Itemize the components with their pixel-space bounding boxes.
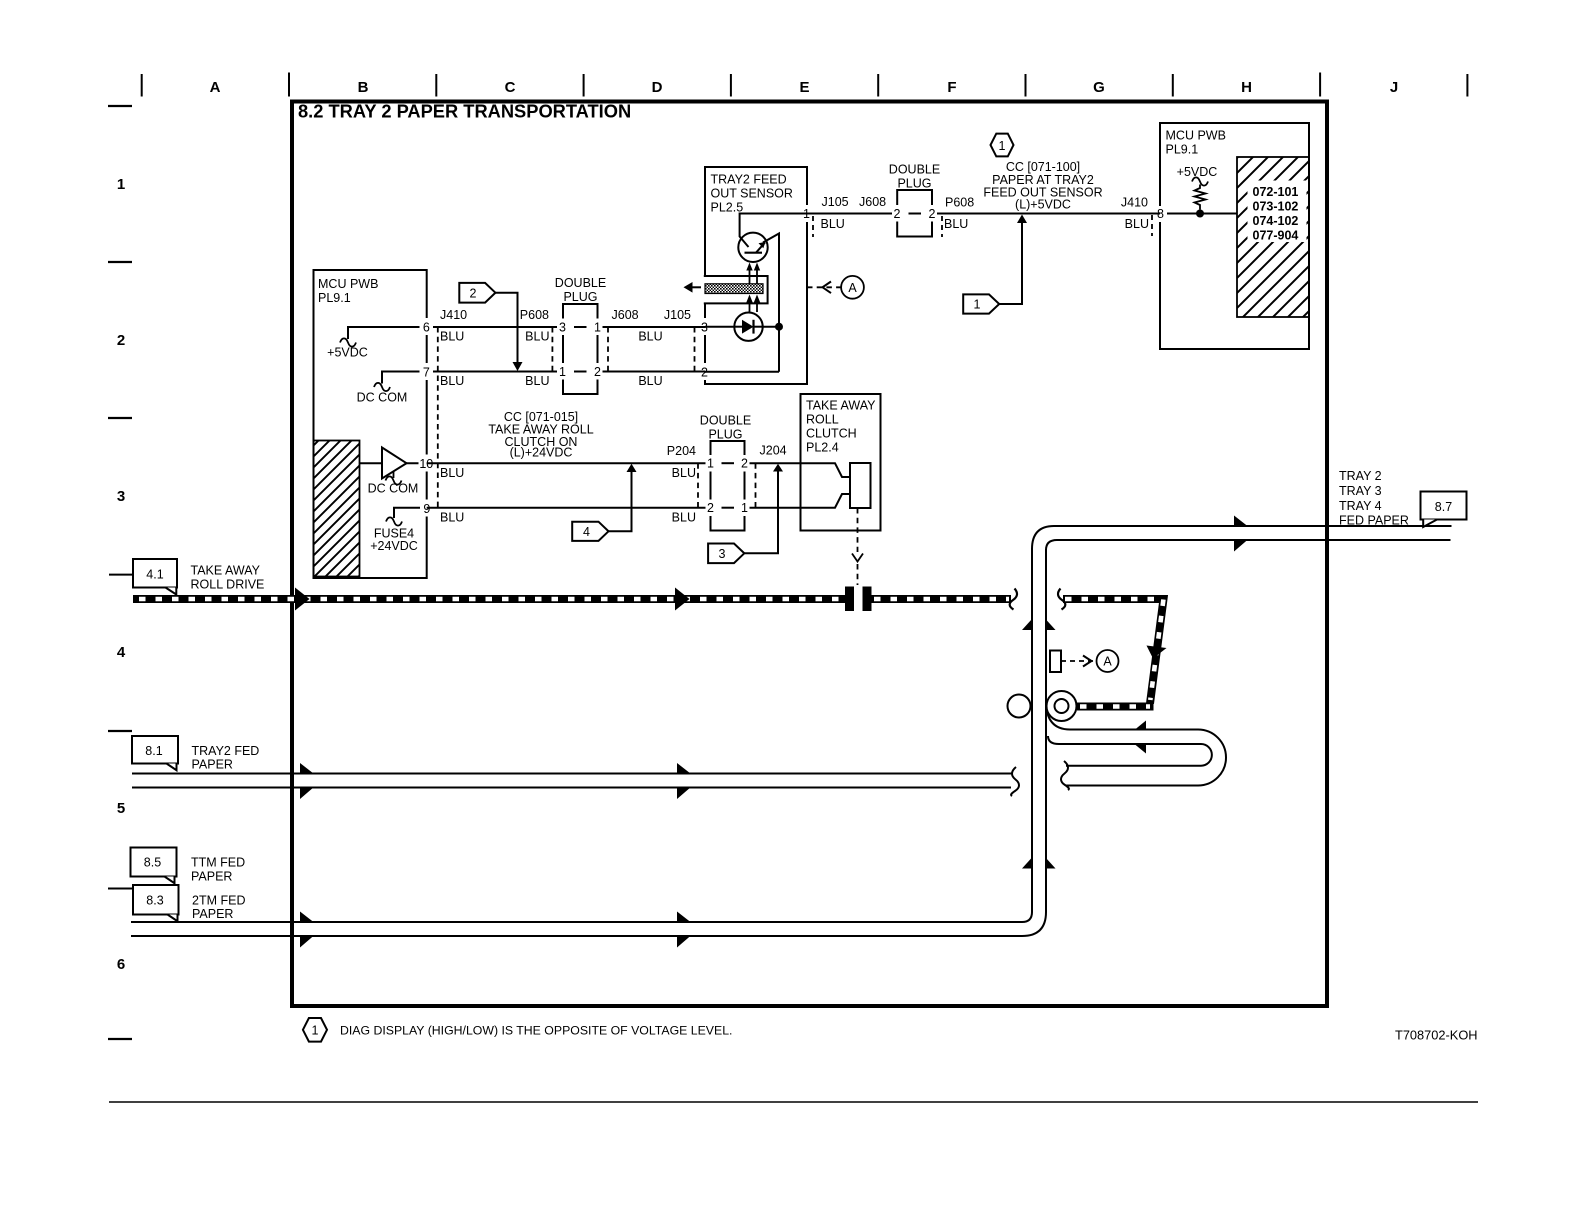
svg-text:+5VDC: +5VDC	[327, 346, 368, 360]
svg-text:J105: J105	[664, 308, 691, 322]
svg-text:FED PAPER: FED PAPER	[1339, 514, 1409, 528]
flag 1 callout	[963, 215, 1027, 314]
connector boundary J105 (dashed)	[812, 216, 814, 237]
drive direction arrowhead	[295, 588, 310, 611]
svg-text:TAKE AWAY: TAKE AWAY	[806, 399, 876, 413]
TRAY2 fed paper path top line	[132, 773, 1012, 775]
wire DP3 to clutch bottom	[749, 507, 801, 509]
coil core	[850, 463, 871, 508]
junction node pin8/resistor	[1196, 210, 1204, 218]
drive belt segment D (checkered)	[1077, 703, 1154, 711]
clutch body box	[801, 394, 881, 531]
svg-text:BLU: BLU	[672, 511, 696, 525]
harness connector boundary J410 (dashed)	[437, 327, 439, 509]
svg-text:DC COM: DC COM	[368, 482, 419, 496]
svg-text:BLU: BLU	[440, 511, 464, 525]
note hexagon 1	[303, 1018, 327, 1042]
svg-text:PL2.4: PL2.4	[806, 441, 839, 455]
svg-text:BLU: BLU	[440, 466, 464, 480]
svg-text:3: 3	[719, 547, 726, 561]
grid column tick marks	[142, 73, 1468, 97]
belt break squiggle right	[1058, 589, 1065, 610]
svg-text:2: 2	[929, 207, 936, 221]
signal name CC [071-015]	[488, 410, 593, 460]
drawing frame border	[292, 102, 1327, 1007]
svg-text:8.3: 8.3	[146, 894, 163, 908]
paper direction up-arrows (duct, lower)	[1022, 858, 1032, 869]
svg-text:2: 2	[470, 286, 477, 300]
flag 4 callout	[572, 464, 636, 541]
svg-text:J: J	[1390, 79, 1398, 96]
emitter wire down to common	[763, 234, 779, 372]
harness connector boundary J105 (dashed)	[694, 327, 696, 374]
svg-text:BLU: BLU	[525, 330, 549, 344]
svg-text:1: 1	[999, 139, 1006, 153]
svg-text:P608: P608	[520, 308, 549, 322]
paper direction half-arrows mid	[677, 912, 690, 922]
TRAY2 fed paper path bottom line	[132, 787, 1011, 789]
test point A (drive)	[1050, 650, 1119, 672]
wire J410-7 to double plug (BLU)	[427, 371, 557, 373]
svg-text:PLUG: PLUG	[708, 428, 742, 442]
svg-text:J105: J105	[822, 195, 849, 209]
double plug DP1 (C-D column)	[555, 276, 606, 394]
svg-text:BLU: BLU	[672, 466, 696, 480]
svg-text:J410: J410	[440, 308, 467, 322]
svg-text:G: G	[1093, 79, 1105, 96]
svg-text:8: 8	[1157, 207, 1164, 221]
internal wire pin 2 common	[705, 371, 779, 373]
vertical transport duct right wall	[1045, 549, 1047, 913]
svg-text:BLU: BLU	[821, 217, 845, 231]
svg-text:1: 1	[559, 365, 566, 379]
svg-text:BLU: BLU	[440, 374, 464, 388]
grid row numbers	[117, 176, 126, 973]
svg-text:3: 3	[117, 488, 125, 505]
svg-text:DIAG DISPLAY (HIGH/LOW) IS THE: DIAG DISPLAY (HIGH/LOW) IS THE OPPOSITE …	[340, 1024, 732, 1038]
paper direction up-arrows (duct, upper)	[1022, 620, 1032, 631]
svg-text:B: B	[358, 79, 369, 96]
belt direction arrowhead (down)	[1147, 646, 1167, 659]
wire harness J608 to J105 top (BLU)	[598, 326, 706, 328]
drive belt segment A (checkered)	[133, 595, 845, 603]
svg-text:2: 2	[117, 332, 125, 349]
actuator flag (hatched)	[705, 284, 763, 294]
svg-text:3: 3	[559, 321, 566, 335]
signal name CC [071-100]	[983, 160, 1102, 212]
DC COM return at pin 7	[357, 372, 426, 405]
wire DP3 to clutch top	[749, 462, 801, 464]
svg-text:8.7: 8.7	[1435, 500, 1452, 514]
return hairpin outer top line	[1046, 701, 1226, 786]
paper direction half-arrows at border	[300, 763, 313, 773]
svg-text:4: 4	[117, 644, 126, 661]
paper direction half-arrows (exit)	[1234, 516, 1247, 526]
connector boundary J204 (dashed)	[755, 463, 757, 509]
svg-text:2: 2	[707, 501, 714, 515]
sensor slot bracket	[704, 276, 768, 303]
pinch roller (idler)	[1008, 695, 1031, 718]
vertical transport duct left wall	[1031, 548, 1033, 913]
svg-text:1: 1	[974, 298, 981, 312]
pin 9	[420, 500, 434, 517]
flag 2 callout	[459, 283, 522, 371]
svg-text:9: 9	[423, 502, 430, 516]
paper direction half-arrows mid	[677, 763, 690, 773]
svg-text:T708702-KOH: T708702-KOH	[1395, 1028, 1478, 1043]
svg-text:A: A	[848, 281, 857, 295]
svg-text:J608: J608	[612, 308, 639, 322]
junction node (LED cathode / emitter common)	[775, 323, 783, 331]
wire J410-6 to double plug (BLU)	[427, 326, 557, 328]
wire sensor pin1 to double plug DP2 (BLU)	[807, 213, 897, 215]
drive belt segment B (checkered)	[872, 595, 1012, 603]
pin 6	[420, 318, 434, 335]
FUSE4 +24VDC source at pin 9	[370, 508, 426, 553]
svg-text:TRAY2 FEED: TRAY2 FEED	[711, 173, 787, 187]
svg-text:6: 6	[423, 321, 430, 335]
svg-text:7: 7	[423, 366, 430, 380]
svg-text:A: A	[210, 79, 221, 96]
svg-text:BLU: BLU	[1125, 217, 1149, 231]
svg-text:5: 5	[117, 800, 125, 817]
drive belt segment C with diagonal (checkered)	[1063, 599, 1164, 704]
svg-text:1: 1	[741, 501, 748, 515]
clutch coupling bars	[845, 587, 854, 612]
svg-text:CLUTCH: CLUTCH	[806, 427, 857, 441]
svg-text:8.1: 8.1	[145, 744, 162, 758]
svg-text:F: F	[947, 79, 956, 96]
note reference hexagon 1	[991, 134, 1014, 157]
svg-text:BLU: BLU	[944, 217, 968, 231]
callout 8.3	[108, 885, 245, 921]
callout 4.1	[109, 574, 133, 576]
harness connector boundary J608 (dashed)	[607, 327, 609, 374]
svg-text:PLUG: PLUG	[563, 290, 597, 304]
wire MCU pin9 to double plug DP3 (BLU)	[427, 507, 706, 509]
wire harness J608 to J105 bottom (BLU)	[598, 371, 706, 373]
sensor body box	[705, 167, 807, 384]
svg-text:TRAY 3: TRAY 3	[1339, 484, 1382, 498]
svg-text:073-102: 073-102	[1253, 200, 1299, 214]
return hairpin inner top line	[1048, 736, 1212, 766]
svg-text:+24VDC: +24VDC	[370, 539, 418, 553]
svg-text:074-102: 074-102	[1253, 214, 1299, 228]
wire pin 8 to logic block	[1167, 213, 1237, 215]
double plug DP3 (clutch)	[700, 414, 751, 531]
+5VDC source at pin 6	[327, 327, 426, 360]
belt break squiggle left	[1010, 589, 1017, 610]
wire DP2 to MCU pin 8 (BLU)	[932, 213, 1160, 215]
svg-text:1: 1	[117, 176, 125, 193]
svg-text:TTM FED: TTM FED	[191, 856, 245, 870]
svg-text:8.5: 8.5	[144, 856, 161, 870]
connector boundary P204 (dashed)	[697, 463, 699, 509]
svg-text:2: 2	[894, 207, 901, 221]
svg-text:2: 2	[741, 457, 748, 471]
svg-text:PAPER: PAPER	[192, 907, 233, 921]
pin 7	[420, 363, 434, 380]
svg-text:PLUG: PLUG	[897, 177, 931, 191]
driver buffer at pin 10	[360, 448, 427, 496]
destination labels TRAY 2/3/4 FED PAPER	[1339, 469, 1409, 528]
svg-text:1: 1	[312, 1024, 319, 1038]
coil leads	[801, 463, 851, 477]
internal collector wire to pin 1	[740, 214, 807, 238]
connector boundary P608 (dashed)	[941, 216, 943, 237]
callout 8.1	[132, 736, 259, 772]
svg-text:C: C	[505, 79, 516, 96]
svg-text:PL9.1: PL9.1	[1166, 143, 1199, 157]
svg-text:BLU: BLU	[525, 374, 549, 388]
svg-text:1: 1	[707, 457, 714, 471]
test point A (sensor)	[807, 276, 864, 299]
mechanical actuation (dashed)	[857, 508, 859, 552]
paper direction half-arrows (hairpin, leftward)	[1135, 721, 1146, 730]
svg-text:8.2 TRAY 2 PAPER TRANSPORTATIO: 8.2 TRAY 2 PAPER TRANSPORTATION	[298, 101, 631, 122]
svg-text:CC [071-100]: CC [071-100]	[1006, 160, 1080, 174]
svg-text:BLU: BLU	[440, 330, 464, 344]
svg-text:J608: J608	[859, 195, 886, 209]
svg-text:072-101: 072-101	[1253, 185, 1299, 199]
svg-text:TAKE AWAY: TAKE AWAY	[191, 564, 261, 578]
LED D	[705, 326, 779, 328]
svg-text:(L)+5VDC: (L)+5VDC	[1015, 198, 1071, 212]
MCU PWB PL9.1 board box	[314, 270, 427, 578]
callout 8.7	[1421, 492, 1467, 528]
svg-text:TRAY 2: TRAY 2	[1339, 469, 1382, 483]
svg-text:4.1: 4.1	[146, 568, 163, 582]
TTM/2TM fed paper path top line	[131, 912, 1032, 922]
svg-text:4: 4	[583, 525, 590, 539]
paper path exit second line	[1046, 540, 1451, 550]
svg-text:J410: J410	[1121, 196, 1148, 210]
svg-text:077-904: 077-904	[1253, 229, 1299, 243]
phototransistor Q	[738, 233, 767, 262]
svg-text:P204: P204	[667, 444, 696, 458]
pin 10	[419, 455, 435, 472]
svg-text:TRAY2 FED: TRAY2 FED	[192, 744, 260, 758]
paper direction half-arrows at border	[300, 912, 313, 922]
take away roll (driven, double circle)	[1047, 691, 1077, 721]
path break squiggle (hairpin left end)	[1061, 761, 1069, 790]
svg-text:MCU PWB: MCU PWB	[1166, 129, 1226, 143]
svg-text:TRAY 4: TRAY 4	[1339, 499, 1382, 513]
svg-text:H: H	[1241, 79, 1252, 96]
MCU PWB PL9.1 board box	[1160, 123, 1309, 349]
connector boundary J410 (dashed)	[1151, 215, 1153, 236]
svg-text:OUT SENSOR: OUT SENSOR	[711, 187, 793, 201]
flag 3 callout	[708, 464, 783, 563]
drive direction arrowhead	[675, 588, 690, 611]
svg-text:1: 1	[594, 321, 601, 335]
svg-text:BLU: BLU	[638, 330, 662, 344]
svg-text:MCU PWB: MCU PWB	[318, 277, 378, 291]
svg-text:DC COM: DC COM	[357, 391, 408, 405]
callout 8.5	[131, 848, 246, 884]
light path arrows (lower pair)	[746, 295, 760, 313]
grid row tick dashes	[108, 106, 132, 1039]
svg-text:2TM FED: 2TM FED	[192, 894, 245, 908]
flag travel arrow	[690, 286, 701, 288]
svg-text:PL9.1: PL9.1	[318, 291, 351, 305]
svg-text:E: E	[799, 79, 809, 96]
harness connector boundary P608 (dashed)	[551, 327, 553, 374]
svg-text:PAPER: PAPER	[192, 758, 233, 772]
svg-text:BLU: BLU	[638, 374, 662, 388]
svg-text:DOUBLE: DOUBLE	[555, 276, 606, 290]
svg-text:A: A	[1103, 655, 1112, 669]
TTM/2TM fed paper path bottom line	[131, 912, 1046, 936]
svg-text:D: D	[652, 79, 663, 96]
wire MCU pin10 to double plug DP3 (BLU)	[427, 462, 706, 464]
light path arrows (upper pair)	[746, 263, 760, 284]
svg-text:(L)+24VDC: (L)+24VDC	[510, 446, 573, 460]
svg-text:J204: J204	[760, 444, 787, 458]
path break squiggle (8.1 right end)	[1011, 767, 1019, 796]
svg-text:ROLL: ROLL	[806, 413, 839, 427]
grid column letters	[210, 79, 1399, 96]
svg-text:ROLL DRIVE: ROLL DRIVE	[191, 578, 265, 592]
svg-text:2: 2	[594, 365, 601, 379]
svg-text:DOUBLE: DOUBLE	[700, 414, 751, 428]
svg-text:PAPER: PAPER	[191, 870, 232, 884]
paper path exit top line	[1032, 526, 1452, 549]
hatched logic block with fault codes	[1237, 157, 1309, 317]
footer rule	[109, 1101, 1478, 1103]
svg-text:DOUBLE: DOUBLE	[889, 163, 940, 177]
svg-text:P608: P608	[945, 196, 974, 210]
hatched internal logic block	[314, 441, 360, 577]
svg-text:6: 6	[117, 956, 125, 973]
double plug DP2 (F column)	[889, 163, 940, 237]
svg-text:PL2.5: PL2.5	[711, 201, 744, 215]
